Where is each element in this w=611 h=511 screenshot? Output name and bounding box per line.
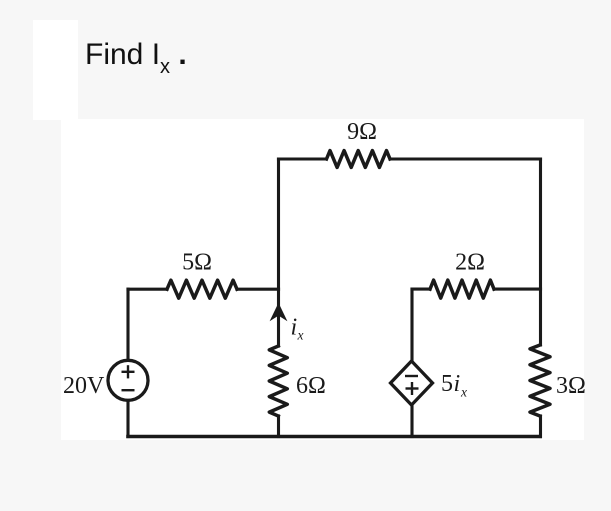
wire left vertical above source (126, 289, 129, 362)
voltage source V1 20V circle (108, 360, 148, 400)
wire 2ohm left lead (412, 288, 430, 291)
svg-text:i: i (291, 315, 298, 341)
wire top-left horizontal (9ohm left lead) (279, 157, 327, 160)
wire right vertical lower (539, 416, 542, 437)
resistor R3 3ohm (530, 345, 550, 416)
svg-text:x: x (460, 385, 467, 400)
V1 plus sign (122, 365, 135, 390)
svg-text:20V: 20V (63, 373, 105, 399)
dependent source U1 diamond 5ix (391, 361, 433, 405)
svg-text:5: 5 (441, 371, 453, 397)
svg-text:3Ω: 3Ω (556, 373, 586, 399)
wire 5ohm left lead (128, 288, 167, 291)
U1 plus sign (bottom) (406, 387, 419, 389)
wire 2ohm right lead (494, 288, 541, 291)
wire left vertical of top loop (277, 159, 280, 289)
svg-text:x: x (297, 328, 304, 343)
resistor R2 2ohm (430, 280, 494, 298)
title: Find Ix . (85, 38, 187, 72)
circuit canvas (61, 119, 584, 440)
svg-text:6Ω: 6Ω (296, 373, 326, 399)
svg-text:5Ω: 5Ω (182, 250, 212, 276)
wire 6ohm bottom lead (277, 416, 280, 437)
wire top-right horizontal (9ohm right lead) (390, 157, 541, 160)
resistor R9 9ohm (327, 151, 391, 168)
resistor R5 5ohm (167, 280, 237, 298)
wire bottom horizontal (128, 435, 540, 439)
wire dependent source bottom lead (410, 406, 413, 437)
wire 5ohm right lead (237, 288, 279, 291)
svg-text:2Ω: 2Ω (455, 250, 485, 276)
svg-text:9Ω: 9Ω (347, 119, 377, 145)
resistor R6 6ohm (269, 346, 287, 416)
wire right vertical upper (539, 159, 542, 345)
current arrow ix on middle branch (270, 303, 288, 322)
wire left vertical below source (126, 399, 129, 437)
white corner block (33, 20, 78, 120)
svg-text:i: i (454, 371, 461, 397)
U1 minus sign (top) (405, 376, 419, 395)
wire dependent source top lead (410, 289, 413, 361)
wire middle vertical below 5ohm node (277, 289, 280, 346)
V1 minus sign (122, 389, 135, 391)
